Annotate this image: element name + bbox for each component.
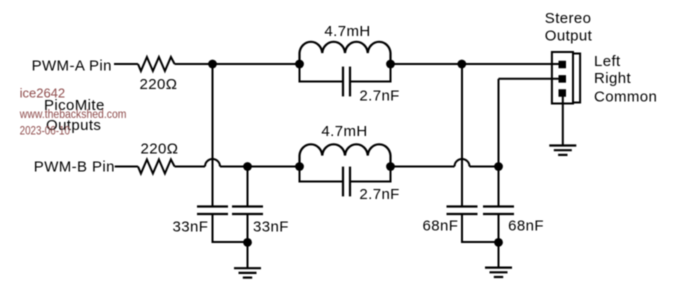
svg-text:Left: Left	[594, 53, 621, 70]
wire hop to node D	[470, 166, 499, 168]
svg-text:4.7mH: 4.7mH	[324, 23, 370, 40]
wire node C down to capacitor 33nF right	[247, 167, 249, 207]
connector pin 2 square	[559, 75, 567, 83]
svg-text:68nF: 68nF	[508, 217, 544, 234]
svg-text:33nF: 33nF	[173, 218, 209, 235]
node tank2 left dot	[295, 162, 304, 171]
svg-text:2.7nF: 2.7nF	[359, 186, 399, 203]
capacitor 33nF left	[197, 207, 228, 215]
wire tank1 out to node B	[391, 63, 462, 65]
ground (68nF pair)	[485, 268, 512, 277]
svg-text:Output: Output	[545, 28, 593, 45]
capacitor 2.7nF (bottom)	[343, 167, 350, 197]
node C junction dot	[243, 162, 252, 171]
capacitor 68nF right	[483, 207, 514, 215]
wire node D up to pin 2 level	[498, 79, 500, 167]
svg-text:220Ω: 220Ω	[140, 76, 178, 93]
connector pin 3 square	[559, 89, 567, 97]
wire 68nF left bottom to node F	[462, 214, 499, 242]
node tank1 left dot	[295, 60, 304, 69]
wire tank1 bottom right	[351, 64, 391, 82]
svg-text:68nF: 68nF	[423, 217, 459, 234]
wire 33nF left bottom to node E	[213, 214, 248, 242]
node D junction dot	[494, 162, 503, 171]
svg-text:Stereo: Stereo	[545, 10, 592, 27]
node tank1 right dot	[386, 60, 395, 69]
wire hop over node B column	[455, 159, 470, 167]
wire node D down to capacitor 68nF right	[498, 167, 500, 207]
svg-text:4.7mH: 4.7mH	[321, 123, 367, 140]
resistor 220 ohm (PWM-A)	[138, 57, 175, 71]
connector pin 1 square	[559, 61, 567, 69]
svg-text:220Ω: 220Ω	[141, 141, 179, 158]
wire tank2 bottom left	[300, 167, 343, 182]
wire node B down to capacitor 68nF left	[461, 64, 463, 207]
svg-text:PWM-B Pin: PWM-B Pin	[34, 159, 115, 176]
node tank2 right dot	[386, 162, 395, 171]
svg-text:2023-06-10: 2023-06-10	[20, 125, 70, 138]
wire 33nF right bottom to node E	[247, 214, 249, 242]
wire tank1 bottom left	[300, 64, 343, 82]
capacitor 33nF right	[232, 207, 263, 215]
wire connector pin 3 to ground	[562, 96, 564, 146]
svg-text:33nF: 33nF	[253, 218, 289, 235]
inductor 4.7mH (bottom)	[300, 144, 391, 166]
wire node A down to capacitor 33nF left	[212, 64, 214, 207]
svg-text:Right: Right	[594, 70, 631, 87]
wire tank2 out to hop	[391, 166, 455, 168]
wire resistor B to hop	[175, 166, 205, 168]
wire tank2 bottom right	[351, 167, 391, 182]
node B junction dot	[457, 60, 466, 69]
wire node F to ground	[498, 242, 500, 268]
wire hop to tank2	[220, 166, 300, 168]
capacitor 2.7nF (top)	[343, 67, 350, 97]
wire node E to ground	[247, 242, 249, 268]
wire node B to connector pin 1	[462, 63, 559, 65]
capacitor 68nF left	[447, 207, 478, 215]
node E junction dot	[243, 238, 252, 247]
connector J1 stereo jack body	[552, 52, 573, 104]
wire PWM-B pin to resistor	[115, 166, 138, 168]
inductor 4.7mH (top)	[300, 42, 391, 64]
wire PWM-A pin to resistor	[114, 63, 138, 65]
svg-text:PWM-A Pin: PWM-A Pin	[32, 57, 112, 74]
svg-text:2.7nF: 2.7nF	[359, 88, 399, 105]
label Stereo Output	[545, 10, 593, 45]
ground (33nF pair)	[234, 268, 261, 277]
node A junction dot	[208, 60, 217, 69]
ground (connector common)	[549, 146, 576, 155]
node F junction dot	[494, 238, 503, 247]
wire 68nF right bottom to node F	[498, 214, 500, 242]
svg-text:Common: Common	[594, 88, 657, 105]
resistor 220 ohm (PWM-B)	[138, 160, 175, 174]
wire to connector pin 2	[499, 78, 560, 80]
connector J1 tab	[573, 54, 580, 103]
wire resistor A to node A	[175, 63, 300, 65]
wire hop over node A column	[205, 159, 220, 167]
